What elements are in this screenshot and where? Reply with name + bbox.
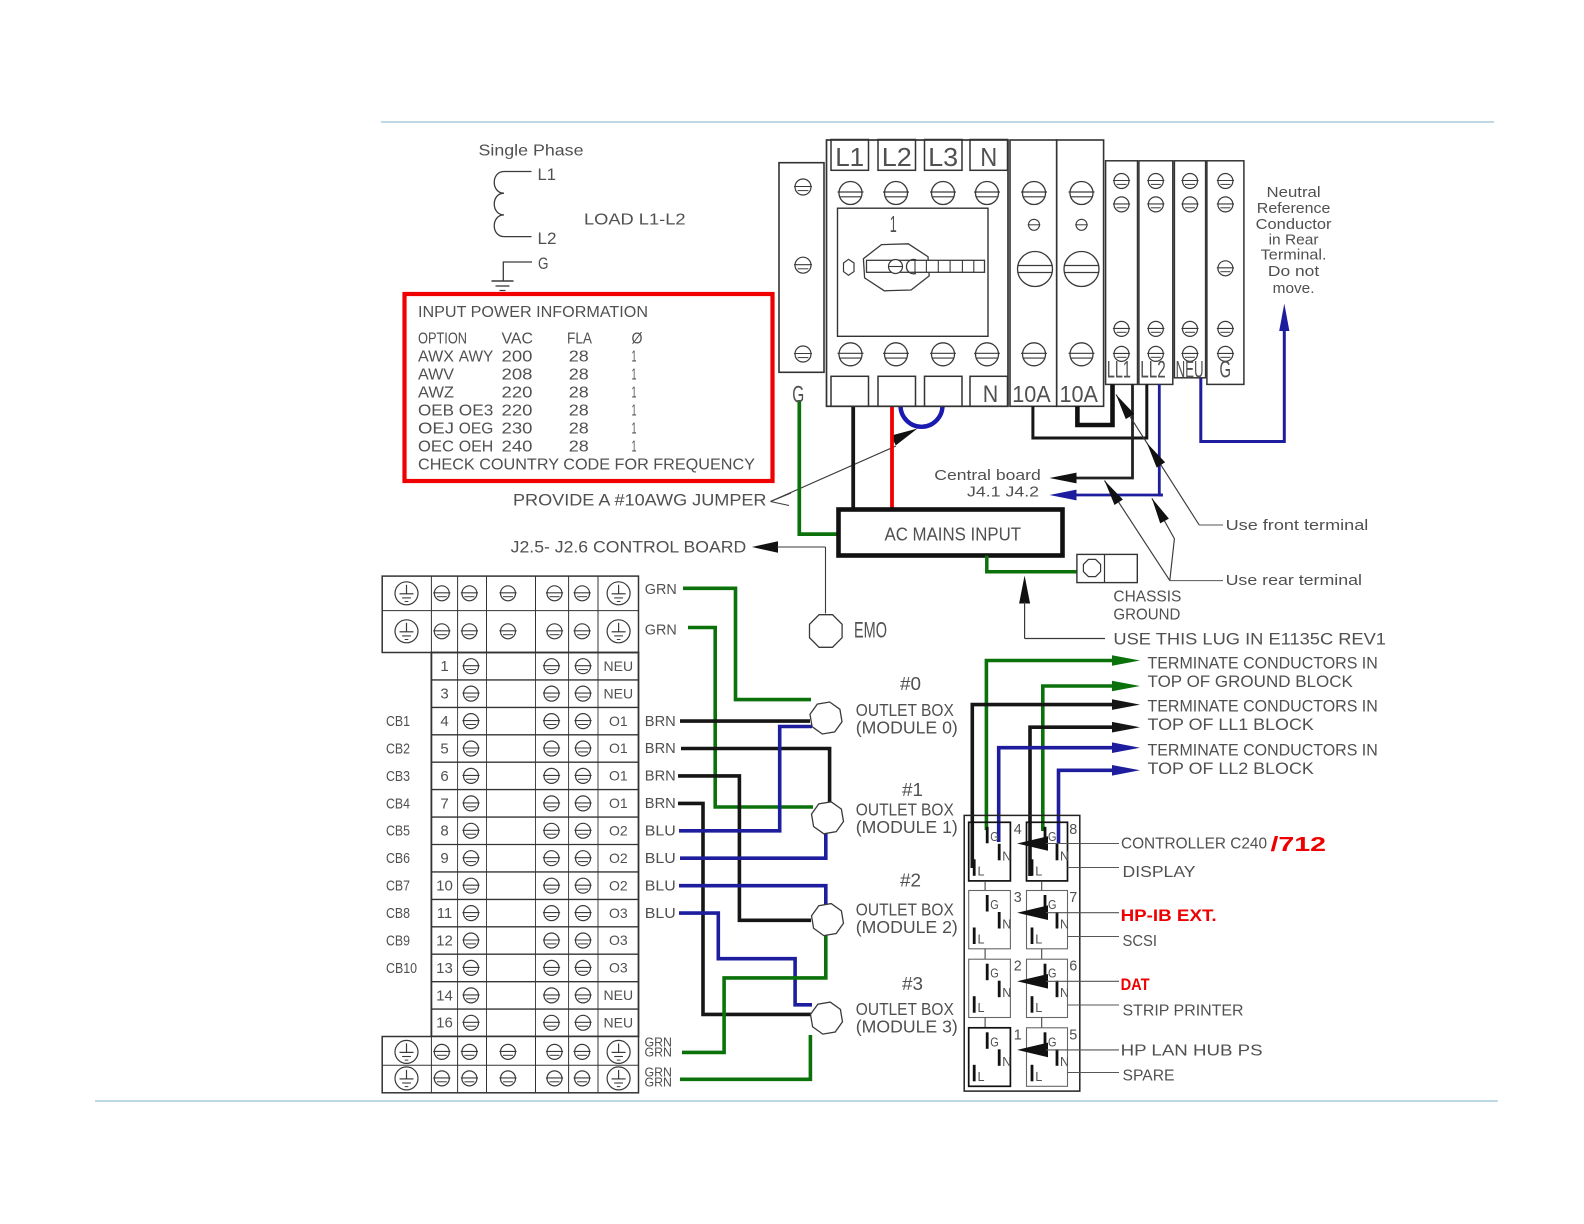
- wire: blue CB8 to outlet box 3: [679, 913, 812, 1005]
- svg-text:1: 1: [440, 658, 448, 675]
- svg-text:7: 7: [1069, 889, 1077, 906]
- svg-text:28: 28: [569, 402, 589, 419]
- svg-text:move.: move.: [1273, 280, 1315, 297]
- svg-text:28: 28: [569, 420, 589, 437]
- svg-text:INPUT POWER INFORMATION: INPUT POWER INFORMATION: [418, 304, 648, 321]
- svg-text:13: 13: [436, 960, 453, 977]
- svg-text:CB9: CB9: [386, 933, 410, 949]
- note: J2.5-J2.6 CONTROL BOARD with arrow: [511, 538, 826, 614]
- svg-text:G: G: [1048, 967, 1057, 981]
- svg-text:CONTROLLER C240: CONTROLLER C240: [1121, 836, 1267, 853]
- svg-text:BRN: BRN: [645, 714, 676, 730]
- svg-text:TERMINATE CONDUCTORS IN: TERMINATE CONDUCTORS IN: [1148, 698, 1378, 716]
- svg-text:8: 8: [1069, 821, 1077, 838]
- note: Use front terminal with arrows: [1116, 395, 1368, 535]
- svg-text:BRN: BRN: [645, 741, 676, 757]
- svg-text:8: 8: [440, 823, 448, 840]
- svg-text:1: 1: [632, 438, 637, 455]
- svg-text:Use front terminal: Use front terminal: [1226, 517, 1369, 534]
- svg-text:O2: O2: [609, 823, 628, 839]
- ground terminal strip (left of switch): [779, 163, 824, 409]
- svg-text:N: N: [1060, 1055, 1069, 1069]
- connector panel (rear panel outlets): [964, 815, 1080, 1091]
- svg-text:G: G: [1220, 356, 1232, 383]
- svg-text:CB2: CB2: [386, 741, 410, 757]
- svg-text:(MODULE 3): (MODULE 3): [856, 1017, 958, 1037]
- svg-text:N: N: [1060, 986, 1069, 1000]
- connector arrow: [1017, 836, 1048, 851]
- svg-text:O3: O3: [609, 932, 628, 948]
- svg-text:Reference: Reference: [1257, 200, 1331, 217]
- svg-text:AWX: AWX: [418, 348, 454, 365]
- svg-text:N: N: [1002, 849, 1011, 863]
- wire: black to LL1 block (arrow): [1030, 722, 1140, 876]
- wire: green ground block to outlet box 0: [683, 588, 811, 699]
- connector labels: [1121, 834, 1326, 1085]
- wire: blue CB7 to outlet box 2: [679, 886, 826, 905]
- wire: red L2 to AC mains input: [890, 406, 894, 509]
- svg-text:OEJ: OEJ: [418, 420, 454, 437]
- svg-text:NEU: NEU: [604, 685, 634, 701]
- outlet box label module 0: [856, 674, 958, 738]
- note: terminate conductors texts: [1148, 655, 1378, 779]
- svg-text:#1: #1: [902, 780, 923, 800]
- svg-text:NEU: NEU: [604, 987, 634, 1003]
- svg-text:L: L: [1035, 864, 1042, 878]
- svg-text:J4.1 J4.2: J4.1 J4.2: [967, 484, 1039, 501]
- svg-text:Neutral: Neutral: [1267, 184, 1321, 201]
- svg-text:BLU: BLU: [645, 878, 676, 894]
- svg-text:L: L: [1035, 1070, 1042, 1084]
- svg-text:DAT: DAT: [1121, 975, 1151, 994]
- svg-text:1: 1: [632, 366, 637, 383]
- svg-text:BLU: BLU: [645, 906, 676, 922]
- svg-text:GRN: GRN: [645, 1075, 673, 1090]
- note: USE THIS LUG IN E1135C REV1 with up arrow: [1019, 576, 1386, 649]
- svg-text:L3: L3: [928, 142, 958, 172]
- svg-text:AWV: AWV: [418, 366, 454, 383]
- svg-text:O1: O1: [609, 740, 628, 756]
- svg-text:CB10: CB10: [386, 961, 417, 977]
- wire: green outlet box 2 to ground block: [682, 935, 826, 1053]
- wire: green to ground block (arrow): [1043, 681, 1140, 831]
- svg-text:28: 28: [569, 366, 589, 383]
- svg-text:L: L: [1035, 1001, 1042, 1015]
- svg-text:TOP OF LL2 BLOCK: TOP OF LL2 BLOCK: [1148, 760, 1314, 778]
- svg-text:CHECK COUNTRY CODE FOR FREQUEN: CHECK COUNTRY CODE FOR FREQUENCY: [418, 457, 755, 474]
- wire: black fuse F1 to LL2 front terminal: [1033, 384, 1147, 438]
- wire: black LL1 rear terminal to central board J4.1: [1050, 384, 1133, 483]
- svg-text:200: 200: [502, 348, 533, 365]
- connector receptacle 4: [969, 822, 1012, 881]
- svg-text:CB8: CB8: [386, 906, 410, 922]
- svg-text:BRN: BRN: [645, 769, 676, 785]
- outlet box circle module 2: [812, 904, 844, 936]
- svg-text:TERMINATE CONDUCTORS IN: TERMINATE CONDUCTORS IN: [1148, 742, 1378, 760]
- chassis ground lug: [1077, 554, 1182, 623]
- wire: green outlet grounds to ground block (arrow): [986, 655, 1140, 830]
- note: PROVIDE A #10AWG JUMPER with leader to jumper: [513, 429, 918, 510]
- svg-text:10A: 10A: [1060, 381, 1099, 407]
- svg-text:230: 230: [502, 420, 533, 437]
- svg-text:CB3: CB3: [386, 769, 410, 785]
- svg-text:BLU: BLU: [645, 824, 676, 840]
- svg-text:220: 220: [502, 384, 533, 401]
- wire: green ground block to outlet box 1: [688, 628, 813, 808]
- svg-text:Single Phase: Single Phase: [479, 143, 584, 160]
- svg-text:FLA: FLA: [567, 331, 592, 348]
- wire: black to LL1 block (arrow): [972, 699, 1140, 868]
- wire: brown CB4 to outlet box 3: [678, 803, 812, 1014]
- connector numbers: [1014, 821, 1078, 1044]
- svg-text:L2: L2: [538, 229, 557, 248]
- svg-text:Terminal.: Terminal.: [1261, 247, 1327, 264]
- svg-text:3: 3: [1014, 889, 1022, 906]
- svg-text:BRN: BRN: [645, 796, 676, 812]
- svg-text:#0: #0: [900, 674, 921, 694]
- svg-text:10A: 10A: [1012, 381, 1051, 407]
- svg-text:10: 10: [436, 878, 453, 895]
- svg-text:OEB: OEB: [418, 402, 454, 419]
- connector receptacle 8: [1027, 822, 1070, 881]
- connector label line: [1068, 1072, 1120, 1074]
- svg-text:5: 5: [1069, 1026, 1077, 1043]
- outlet box label module 2: [856, 871, 958, 938]
- svg-text:L2: L2: [882, 142, 912, 172]
- wire: brown CB2 to outlet box 1: [681, 749, 830, 804]
- svg-text:TOP OF GROUND BLOCK: TOP OF GROUND BLOCK: [1148, 673, 1353, 691]
- svg-text:Use rear terminal: Use rear terminal: [1226, 572, 1362, 589]
- terminal block TB1 (power distribution): [382, 576, 638, 1093]
- connector arrow: [1017, 1043, 1048, 1058]
- svg-text:6: 6: [1069, 958, 1077, 975]
- svg-text:TOP OF LL1 BLOCK: TOP OF LL1 BLOCK: [1148, 716, 1314, 734]
- wire: brown CB3 to outlet box 2: [678, 776, 811, 920]
- svg-text:Conductor: Conductor: [1256, 216, 1332, 233]
- svg-text:OEG: OEG: [459, 420, 494, 437]
- svg-text:16: 16: [436, 1015, 453, 1032]
- svg-text:208: 208: [502, 366, 533, 383]
- connector receptacle 5: [1027, 1028, 1070, 1087]
- svg-text:N: N: [1002, 1055, 1011, 1069]
- svg-text:LL1: LL1: [1107, 356, 1131, 383]
- connector label line: [1068, 867, 1120, 869]
- svg-text:L: L: [978, 933, 985, 947]
- svg-text:USE THIS LUG IN E1135C REV1: USE THIS LUG IN E1135C REV1: [1113, 631, 1386, 649]
- svg-text:1: 1: [632, 348, 637, 365]
- svg-text:SCSI: SCSI: [1123, 933, 1158, 950]
- svg-text:O1: O1: [609, 768, 628, 784]
- svg-text:(MODULE 2): (MODULE 2): [856, 917, 958, 937]
- svg-text:HP-IB EXT.: HP-IB EXT.: [1121, 906, 1217, 925]
- terminal strip LL1: [1106, 161, 1138, 385]
- svg-text:GRN: GRN: [645, 623, 677, 639]
- note: Use rear terminal with arrows: [1105, 481, 1363, 590]
- svg-text:9: 9: [440, 850, 448, 867]
- svg-text:L: L: [978, 1001, 985, 1015]
- input power information table: [405, 294, 773, 481]
- svg-text:G: G: [1048, 830, 1057, 844]
- EMO switch: [810, 615, 888, 648]
- svg-text:N: N: [1060, 918, 1069, 932]
- svg-text:G: G: [792, 381, 804, 408]
- wire: blue LL2 rear terminal to central board J4.2: [1050, 384, 1163, 500]
- svg-text:1: 1: [890, 211, 897, 237]
- svg-text:14: 14: [436, 987, 453, 1004]
- svg-text:N: N: [1060, 849, 1069, 863]
- svg-text:L: L: [978, 864, 985, 878]
- svg-text:NEU: NEU: [604, 658, 634, 674]
- wire: blue CB5 to outlet box 0: [679, 727, 812, 831]
- wire labels GRN/BRN/BLU: [645, 582, 677, 1090]
- svg-text:1: 1: [1014, 1026, 1022, 1043]
- svg-text:O1: O1: [609, 795, 628, 811]
- svg-text:3: 3: [440, 686, 448, 703]
- svg-text:BLU: BLU: [645, 851, 676, 867]
- svg-text:AWY: AWY: [459, 348, 494, 365]
- svg-text:28: 28: [569, 384, 589, 401]
- svg-text:N: N: [1002, 986, 1011, 1000]
- connector label line: [1068, 936, 1120, 938]
- svg-text:CB7: CB7: [386, 879, 410, 895]
- svg-text:OEH: OEH: [459, 438, 494, 455]
- connector receptacle 7: [1027, 891, 1070, 949]
- svg-text:GRN: GRN: [645, 582, 677, 598]
- svg-text:G: G: [990, 830, 999, 844]
- ground (source G): [492, 254, 549, 291]
- svg-text:Central board: Central board: [934, 467, 1041, 484]
- svg-text:1: 1: [632, 402, 637, 419]
- outlet box circle module 3: [811, 1002, 843, 1034]
- terminal strip LL2: [1139, 161, 1173, 385]
- svg-text:O3: O3: [609, 960, 628, 976]
- svg-text:#3: #3: [902, 974, 923, 994]
- outlet box circle module 0: [810, 702, 842, 734]
- svg-text:OEC: OEC: [418, 438, 454, 455]
- svg-text:SPARE: SPARE: [1123, 1068, 1175, 1085]
- connector arrow: [1017, 974, 1048, 989]
- outlet box label module 1: [856, 780, 958, 837]
- wire: blue neutral reference conductor from NEU strip with up arrow: [1201, 304, 1290, 442]
- connector receptacle 6: [1027, 959, 1070, 1017]
- connector label line: [1068, 1004, 1120, 1006]
- fuse F2 10A: [1057, 140, 1104, 407]
- svg-text:OE3: OE3: [459, 402, 494, 419]
- svg-text:240: 240: [502, 438, 533, 455]
- connector receptacle 1: [969, 1028, 1012, 1087]
- svg-text:AC MAINS INPUT: AC MAINS INPUT: [885, 525, 1022, 545]
- wire: black L1 to AC mains input: [851, 406, 855, 509]
- svg-text:O3: O3: [609, 905, 628, 921]
- inductor L1-L2 single phase source: [479, 143, 686, 249]
- wire: brown CB1 to outlet box 0: [680, 719, 810, 723]
- svg-text:O1: O1: [609, 713, 628, 729]
- svg-text:STRIP PRINTER: STRIP PRINTER: [1123, 1003, 1244, 1020]
- svg-text:12: 12: [436, 932, 453, 949]
- wire: thick black fuse F2 to LL1 front terminal: [1077, 384, 1112, 425]
- svg-text:L1: L1: [538, 165, 557, 184]
- svg-text:6: 6: [440, 768, 448, 785]
- svg-text:G: G: [538, 254, 549, 273]
- svg-text:4: 4: [1014, 821, 1022, 838]
- connector arrow: [1017, 905, 1048, 920]
- wire: green ground G to AC mains input: [799, 400, 838, 534]
- svg-text:OPTION: OPTION: [418, 331, 467, 348]
- svg-text:1: 1: [632, 420, 637, 437]
- svg-text:O2: O2: [609, 877, 628, 893]
- wire: blue CB6 to outlet box 1: [680, 833, 826, 858]
- svg-text:Do not: Do not: [1268, 263, 1320, 280]
- connector receptacle 2: [969, 959, 1012, 1017]
- wire: green AC mains input to chassis ground lug: [987, 556, 1077, 572]
- svg-text:28: 28: [569, 438, 589, 455]
- svg-text:(MODULE 1): (MODULE 1): [856, 817, 958, 837]
- svg-text:L: L: [978, 1070, 985, 1084]
- note: Central board J4.1 J4.2: [934, 467, 1041, 501]
- wire: green outlet box 3 to ground block: [680, 1035, 810, 1079]
- svg-text:5: 5: [440, 740, 448, 757]
- svg-text:CB6: CB6: [386, 851, 410, 867]
- svg-text:28: 28: [569, 348, 589, 365]
- svg-text:4: 4: [440, 713, 448, 730]
- svg-text:(MODULE 0): (MODULE 0): [856, 718, 958, 738]
- svg-text:VAC: VAC: [502, 331, 534, 348]
- svg-text:HP LAN HUB PS: HP LAN HUB PS: [1121, 1043, 1263, 1060]
- terminal strip G: [1207, 161, 1244, 385]
- svg-text:CB5: CB5: [386, 824, 410, 840]
- svg-text:CB4: CB4: [386, 796, 410, 812]
- svg-text:O2: O2: [609, 850, 628, 866]
- svg-text:DISPLAY: DISPLAY: [1123, 864, 1196, 881]
- svg-text:/712: /712: [1271, 834, 1327, 856]
- outlet box circle module 1: [812, 802, 844, 834]
- svg-text:220: 220: [502, 402, 533, 419]
- svg-text:J2.5- J2.6 CONTROL BOARD: J2.5- J2.6 CONTROL BOARD: [511, 538, 747, 557]
- svg-text:G: G: [990, 1035, 999, 1049]
- svg-text:G: G: [990, 898, 999, 912]
- svg-text:7: 7: [440, 795, 448, 812]
- svg-text:N: N: [1002, 918, 1011, 932]
- svg-text:G: G: [1048, 898, 1057, 912]
- wire: blue to LL2 block (arrow): [999, 742, 1140, 842]
- fuse F1 10A: [1010, 140, 1057, 407]
- wire: blue to LL2 block (arrow): [1059, 765, 1141, 843]
- svg-text:GRN: GRN: [645, 1045, 673, 1060]
- note: Neutral Reference Conductor in Rear Terminal: [1256, 184, 1332, 297]
- svg-text:N: N: [980, 142, 997, 172]
- svg-text:L: L: [1035, 933, 1042, 947]
- svg-text:#2: #2: [900, 871, 921, 891]
- outlet box label module 3: [856, 974, 958, 1037]
- svg-text:PROVIDE A #10AWG JUMPER: PROVIDE A #10AWG JUMPER: [513, 491, 767, 510]
- svg-text:1: 1: [632, 384, 637, 401]
- terminal strip NEU: [1174, 161, 1205, 383]
- svg-text:G: G: [1048, 1035, 1057, 1049]
- svg-text:TERMINATE CONDUCTORS IN: TERMINATE CONDUCTORS IN: [1148, 655, 1378, 673]
- svg-text:GROUND: GROUND: [1113, 607, 1180, 624]
- svg-text:AWZ: AWZ: [418, 384, 454, 401]
- svg-text:LL2: LL2: [1140, 356, 1166, 383]
- svg-text:G: G: [990, 967, 999, 981]
- svg-text:2: 2: [1014, 958, 1022, 975]
- svg-text:CB1: CB1: [386, 714, 410, 730]
- connector receptacle 3: [969, 891, 1012, 949]
- svg-text:EMO: EMO: [854, 618, 887, 643]
- svg-text:CHASSIS: CHASSIS: [1113, 589, 1181, 606]
- svg-text:N: N: [983, 381, 999, 408]
- jumper: blue #10AWG jumper arc L2-L3: [901, 406, 943, 427]
- svg-text:L1: L1: [835, 142, 864, 172]
- svg-text:LOAD L1-L2: LOAD L1-L2: [584, 212, 686, 229]
- main disconnect switch S1: [827, 140, 1009, 409]
- svg-text:NEU: NEU: [604, 1015, 634, 1031]
- svg-text:11: 11: [437, 905, 453, 922]
- svg-text:Ø: Ø: [632, 331, 643, 348]
- AC MAINS INPUT box: [839, 510, 1063, 556]
